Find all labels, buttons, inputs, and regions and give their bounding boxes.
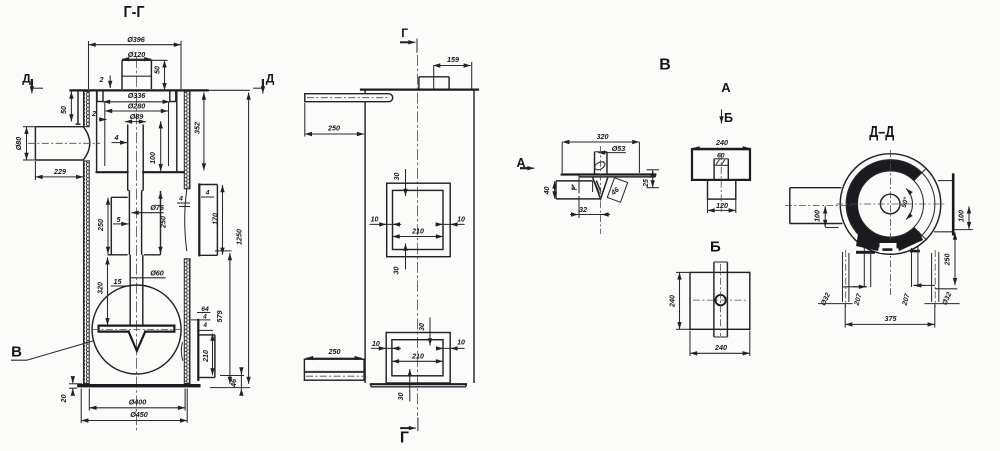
lower branch outline <box>198 320 215 380</box>
svg-text:4: 4 <box>202 322 207 329</box>
dim 170 <box>211 185 223 255</box>
plate detail <box>562 175 656 177</box>
svg-text:Ø400: Ø400 <box>129 398 147 407</box>
svg-text:Г-Г: Г-Г <box>124 4 145 21</box>
impeller circle <box>92 285 181 374</box>
callout d76 <box>132 203 165 213</box>
frame1 dim30 bottom <box>394 244 406 275</box>
frame2 dim210 <box>392 353 443 361</box>
callout 2 top plate <box>99 75 111 88</box>
dim 240 bottom viewB <box>690 331 750 357</box>
DD right flange <box>952 173 955 235</box>
svg-text:250: 250 <box>945 254 952 267</box>
dim d120 <box>122 50 151 59</box>
svg-text:4: 4 <box>114 133 119 142</box>
svg-text:Д: Д <box>266 72 275 86</box>
dim 240 left viewB <box>668 272 691 329</box>
dim 250 right DD <box>935 233 957 289</box>
svg-text:30: 30 <box>419 323 426 331</box>
right wall lower <box>184 259 190 384</box>
dim 100 <box>148 121 161 171</box>
vessel top plate mid <box>361 88 478 90</box>
callout 4 detail <box>569 174 579 193</box>
label d32 left <box>818 292 852 307</box>
svg-text:352: 352 <box>193 122 202 134</box>
svg-text:250: 250 <box>328 347 341 356</box>
top nozzle d120 <box>122 60 151 89</box>
dim d450 <box>81 389 187 424</box>
mid branch outline <box>199 185 217 256</box>
dim 320 <box>96 257 108 325</box>
lower branch break curve <box>181 342 183 361</box>
inner shell left <box>97 91 105 171</box>
svg-text:50: 50 <box>153 66 162 74</box>
viewA centerline <box>720 153 722 212</box>
dim 32 <box>570 196 610 218</box>
viewA tube <box>714 159 728 180</box>
svg-text:Б: Б <box>724 111 733 125</box>
ring inner edge <box>858 171 924 237</box>
jacket tube <box>108 191 161 255</box>
svg-text:64: 64 <box>201 306 209 313</box>
mid branch break curve <box>185 189 187 251</box>
bottom pipe mid <box>304 359 364 380</box>
leg top bar right <box>910 250 920 253</box>
ring outer edge <box>846 160 935 249</box>
svg-text:4: 4 <box>205 189 210 196</box>
frame2 dim30 bottom <box>398 369 410 402</box>
bottom slot white <box>880 243 897 253</box>
base plate mid <box>371 384 466 387</box>
svg-text:Ø396: Ø396 <box>127 35 146 44</box>
dim 250 top pipe <box>305 103 364 137</box>
viewB crosshair <box>693 264 748 336</box>
frame2 dim30 top <box>419 318 430 346</box>
dim 20 <box>59 377 82 404</box>
gap edge lines <box>914 227 926 239</box>
top pipe capsule <box>305 94 393 102</box>
svg-text:40: 40 <box>544 187 551 196</box>
bottom plate <box>77 384 200 387</box>
svg-text:Ø450: Ø450 <box>130 410 148 419</box>
flag 46 <box>607 178 627 203</box>
svg-text:100: 100 <box>148 152 157 164</box>
dim 207 right <box>901 285 935 307</box>
svg-text:Ø280: Ø280 <box>128 102 146 111</box>
svg-text:50: 50 <box>59 106 68 114</box>
centerline vessel axis <box>136 57 138 432</box>
top stub left <box>97 91 103 102</box>
dim 352 <box>193 93 204 171</box>
frame2 dim10 left <box>371 341 401 348</box>
dim d336 <box>103 91 170 102</box>
circle crosshair <box>92 329 181 331</box>
tube d53 <box>595 152 608 174</box>
svg-text:240: 240 <box>715 138 728 147</box>
frame1 inner <box>393 190 444 249</box>
viewB hole <box>715 295 725 305</box>
viewB strip <box>714 262 728 337</box>
leg pad left <box>856 234 880 251</box>
svg-text:Д: Д <box>22 72 31 86</box>
dim 1250 <box>208 90 250 384</box>
skirt box detail <box>556 181 601 199</box>
left nozzle centerline <box>28 142 100 144</box>
weld ellipse <box>593 160 606 171</box>
central tube d76 <box>128 191 144 255</box>
section D left <box>22 72 43 94</box>
svg-text:10: 10 <box>371 217 379 224</box>
section D right <box>253 72 275 94</box>
bottom slot bar <box>882 248 892 251</box>
svg-text:170: 170 <box>211 213 220 225</box>
detail centerline <box>600 146 602 234</box>
svg-text:100: 100 <box>959 210 966 222</box>
viewA body <box>692 149 750 180</box>
svg-text:Ø76: Ø76 <box>150 203 165 212</box>
dim d80 <box>14 127 35 160</box>
svg-text:250: 250 <box>96 219 105 232</box>
dim 50 nozzle <box>151 60 167 90</box>
svg-text:32: 32 <box>579 205 587 214</box>
svg-text:46: 46 <box>229 378 238 388</box>
dim 46 <box>210 368 250 395</box>
right wall upper <box>184 91 190 189</box>
callout 2 liner <box>91 109 107 120</box>
label d32 right <box>924 291 959 306</box>
DD left pipe <box>785 188 852 224</box>
vessel centerline mid <box>417 55 419 416</box>
svg-text:240: 240 <box>714 343 727 352</box>
marker B arrow <box>722 109 734 124</box>
dim 250 bottom pipe <box>306 347 362 358</box>
right leg lines <box>912 247 918 287</box>
marker A arrow <box>516 156 534 170</box>
weld vee detail <box>593 178 608 199</box>
svg-text:25: 25 <box>643 179 650 188</box>
callout 4 weld left <box>177 196 190 207</box>
dim 210 branch <box>203 334 213 376</box>
callout d60 <box>131 269 166 278</box>
DD right stub <box>934 181 952 232</box>
callout 15 <box>111 277 129 286</box>
dim 120 <box>708 199 736 213</box>
stud lines left <box>843 250 849 307</box>
vee notch <box>129 332 146 351</box>
dim d396 <box>89 35 182 89</box>
vessel right edge <box>473 91 475 384</box>
svg-text:15: 15 <box>114 277 123 286</box>
left wall lower <box>84 161 90 384</box>
viewA stem <box>708 180 736 199</box>
dim 100 left <box>815 206 839 227</box>
svg-text:240: 240 <box>668 295 677 308</box>
dim 375 <box>845 304 935 328</box>
vessel left edge <box>364 91 366 384</box>
frame1 outer <box>387 183 451 257</box>
inner bottom plate <box>97 171 184 173</box>
frame1 dim10 left <box>370 217 402 225</box>
viewB square <box>690 272 750 329</box>
svg-text:10: 10 <box>457 217 465 224</box>
dim d280 <box>105 102 168 112</box>
tee bar <box>99 326 175 332</box>
svg-text:210: 210 <box>203 350 210 363</box>
stud lines right <box>932 250 939 307</box>
callout 4 weld right <box>201 189 214 197</box>
svg-text:Ø120: Ø120 <box>128 50 146 59</box>
svg-text:320: 320 <box>96 282 105 294</box>
dim 25 <box>643 170 659 188</box>
svg-text:Ø89: Ø89 <box>130 112 144 121</box>
svg-text:30: 30 <box>398 393 405 401</box>
label V leader <box>11 341 94 361</box>
svg-text:В: В <box>11 344 22 361</box>
svg-text:В: В <box>659 57 671 74</box>
dim 207 left <box>843 287 867 307</box>
svg-text:210: 210 <box>411 229 424 236</box>
left wall upper <box>84 91 90 126</box>
svg-text:100: 100 <box>815 210 822 222</box>
top stub right <box>170 91 176 102</box>
frame2 inner <box>392 340 443 376</box>
svg-text:30: 30 <box>394 267 401 275</box>
dim 250 left <box>96 198 108 254</box>
left nozzle d80 <box>35 127 89 160</box>
svg-text:Г: Г <box>401 26 408 40</box>
stem tube d60 <box>130 255 143 326</box>
section mark G top <box>400 26 417 53</box>
svg-text:Ø53: Ø53 <box>612 144 626 153</box>
svg-text:Ø336: Ø336 <box>128 91 147 100</box>
svg-text:4: 4 <box>202 313 207 320</box>
svg-text:А: А <box>721 80 731 95</box>
dim 229 <box>35 161 83 180</box>
svg-text:4: 4 <box>178 196 183 203</box>
inner shell right <box>169 91 177 171</box>
leg pad right <box>896 231 923 251</box>
DD crosshair <box>836 150 946 296</box>
svg-text:Д–Д: Д–Д <box>869 124 894 141</box>
svg-text:30: 30 <box>394 173 401 181</box>
left leg lines <box>864 247 870 287</box>
callout 4 tube <box>112 133 128 143</box>
svg-text:10: 10 <box>372 341 380 348</box>
dim 100 right <box>954 206 972 229</box>
svg-text:250: 250 <box>159 216 168 229</box>
svg-text:1250: 1250 <box>235 229 244 245</box>
frame2 outer <box>386 333 450 384</box>
dim 240 viewA <box>693 138 750 148</box>
frame1 dim210 <box>393 229 444 237</box>
svg-text:320: 320 <box>597 132 609 141</box>
svg-text:2: 2 <box>99 75 104 84</box>
svg-text:375: 375 <box>885 314 898 323</box>
outer shell circle <box>840 154 941 255</box>
svg-text:579: 579 <box>215 311 224 323</box>
callout 5 <box>113 215 129 224</box>
svg-text:2: 2 <box>91 109 96 118</box>
dim 579 <box>215 251 232 384</box>
lower branch ticks <box>191 313 213 331</box>
svg-text:229: 229 <box>53 167 66 176</box>
svg-text:Ø60: Ø60 <box>150 269 164 278</box>
callout d53 <box>598 144 626 153</box>
svg-text:210: 210 <box>411 353 424 360</box>
svg-text:120: 120 <box>716 201 728 210</box>
central tube d89 <box>128 125 144 191</box>
dim 50 collar <box>59 92 71 122</box>
hub circle <box>880 194 900 214</box>
dim 250 right <box>159 192 168 254</box>
insulation ring <box>846 160 922 249</box>
dim d89 <box>125 112 146 122</box>
frame2 dim10 right <box>436 340 465 349</box>
dim 159 <box>433 55 472 89</box>
svg-text:20: 20 <box>59 395 68 404</box>
top stub 159 <box>419 66 449 89</box>
leg top bar left <box>856 251 875 254</box>
svg-text:Б: Б <box>710 238 721 255</box>
svg-text:Г: Г <box>400 429 409 446</box>
dim 320 detail <box>562 132 639 173</box>
section mark G bottom <box>400 418 418 447</box>
frame1 dim10 right <box>436 217 465 225</box>
svg-text:Ø80: Ø80 <box>14 137 23 151</box>
angle 90 arc <box>906 188 912 219</box>
frame1 dim30 top <box>394 169 406 196</box>
svg-text:250: 250 <box>327 124 340 133</box>
svg-text:10: 10 <box>457 340 465 347</box>
dim d400 <box>89 389 185 411</box>
dim 40 <box>544 181 555 198</box>
svg-text:159: 159 <box>447 55 459 64</box>
top plate <box>71 89 208 91</box>
left collar <box>76 91 81 124</box>
